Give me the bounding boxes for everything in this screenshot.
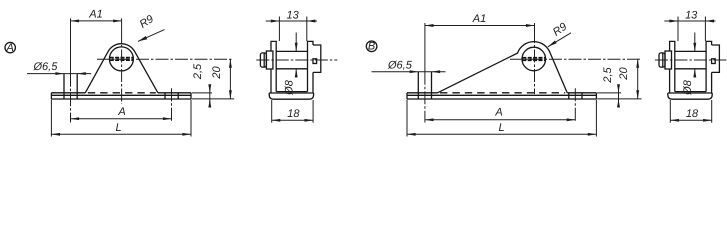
side view A: horizontal centerline [256, 59, 337, 61]
dimension 2,5 (B) [597, 86, 641, 107]
variant marker B [366, 41, 377, 53]
svg-text:A: A [494, 107, 502, 119]
bracket B: pivot hole [522, 47, 546, 71]
svg-text:L: L [498, 122, 504, 134]
A: right mounting hole [165, 93, 178, 99]
side view B: hole edges [675, 51, 706, 68]
A: left mounting hole [64, 74, 77, 99]
dimension Ø6,5 (B) [372, 71, 446, 73]
dimension Ø8 (B side view) [694, 33, 696, 78]
B: left mounting hole [418, 72, 431, 99]
A: pivot horizontal centerline [97, 58, 232, 60]
bracket A: strap outline (legs + R9 arc) [85, 44, 158, 93]
side view B: clevis walls [670, 41, 712, 93]
dimension 18 (B side view) [670, 100, 711, 123]
svg-text:18: 18 [287, 108, 300, 120]
dimension 18 (A side view) [272, 100, 313, 123]
dimension L (A) [51, 100, 191, 137]
side view A: channel floor [276, 91, 307, 93]
svg-text:A: A [117, 106, 125, 118]
dimension 13 (A side view) [266, 17, 317, 42]
side view B: rear tab [712, 45, 720, 72]
dimension 20 (A) [229, 59, 231, 99]
B: pivot horizontal centerline [510, 58, 642, 60]
dimension A (B) [425, 119, 575, 121]
B: right mounting hole [569, 93, 582, 99]
side view B: screw tip [712, 59, 716, 64]
side view B: washer [665, 51, 672, 69]
side view A: base plate side profile [269, 93, 313, 99]
dimension L (B) [407, 100, 596, 137]
svg-text:20: 20 [211, 66, 223, 80]
dimension A1 (B) [425, 25, 535, 27]
side view A: washer [266, 51, 273, 69]
svg-text:2,5: 2,5 [192, 63, 204, 80]
svg-text:2,5: 2,5 [602, 66, 614, 83]
svg-text:13: 13 [685, 10, 698, 22]
side view B: clamping screw head [659, 53, 665, 67]
dimension Ø6,5 (A) [27, 73, 91, 75]
bracket A: base plate front outline [51, 93, 191, 99]
bracket B: strap outline (legs + R9 arc) [438, 42, 568, 93]
svg-text:Ø8: Ø8 [283, 79, 295, 96]
svg-text:18: 18 [686, 108, 699, 120]
svg-text:Ø6,5: Ø6,5 [33, 61, 59, 73]
bracket B: base plate front outline [407, 93, 596, 99]
dimension 2,5 (A) [192, 86, 234, 107]
bracket A: hidden bolt shaft inside hole [110, 58, 133, 60]
svg-text:A1: A1 [88, 8, 102, 20]
bracket B: hidden edge between legs [440, 92, 565, 94]
dimension R9 with leader (A) [138, 30, 165, 42]
dimension 20 (B) [637, 59, 639, 99]
dimension Ø8 (A side view) [295, 33, 297, 78]
side view B: base plate side profile [668, 93, 712, 99]
svg-text:B: B [368, 41, 375, 53]
side view A: screw tip [313, 59, 317, 64]
variant marker A [5, 42, 15, 54]
B: pivot vertical centerline [534, 23, 536, 30]
svg-text:20: 20 [618, 67, 630, 81]
A: pivot vertical centerline [121, 19, 123, 31]
svg-text:A: A [6, 42, 14, 54]
side view B: horizontal centerline [655, 59, 727, 61]
dimension R9 with leader (B) [548, 33, 571, 47]
bracket B: hidden bolt shaft inside hole [522, 58, 545, 60]
svg-text:L: L [115, 122, 121, 134]
side view B: channel floor [675, 91, 706, 93]
side view A: hole edges [276, 51, 307, 68]
dimension 13 (B side view) [664, 17, 715, 42]
dimension A1 (A) [71, 20, 122, 22]
svg-text:Ø6,5: Ø6,5 [387, 59, 413, 71]
side view A: clevis walls [271, 41, 313, 93]
svg-text:Ø8: Ø8 [682, 79, 694, 96]
bracket A: hidden edge between legs [88, 92, 156, 94]
dimension A (A) [71, 118, 172, 120]
bracket A: pivot hole [109, 47, 133, 71]
svg-text:13: 13 [286, 10, 299, 22]
svg-text:A1: A1 [472, 13, 486, 25]
side view A: clamping screw head [260, 53, 266, 67]
side view A: rear tab [313, 45, 321, 72]
